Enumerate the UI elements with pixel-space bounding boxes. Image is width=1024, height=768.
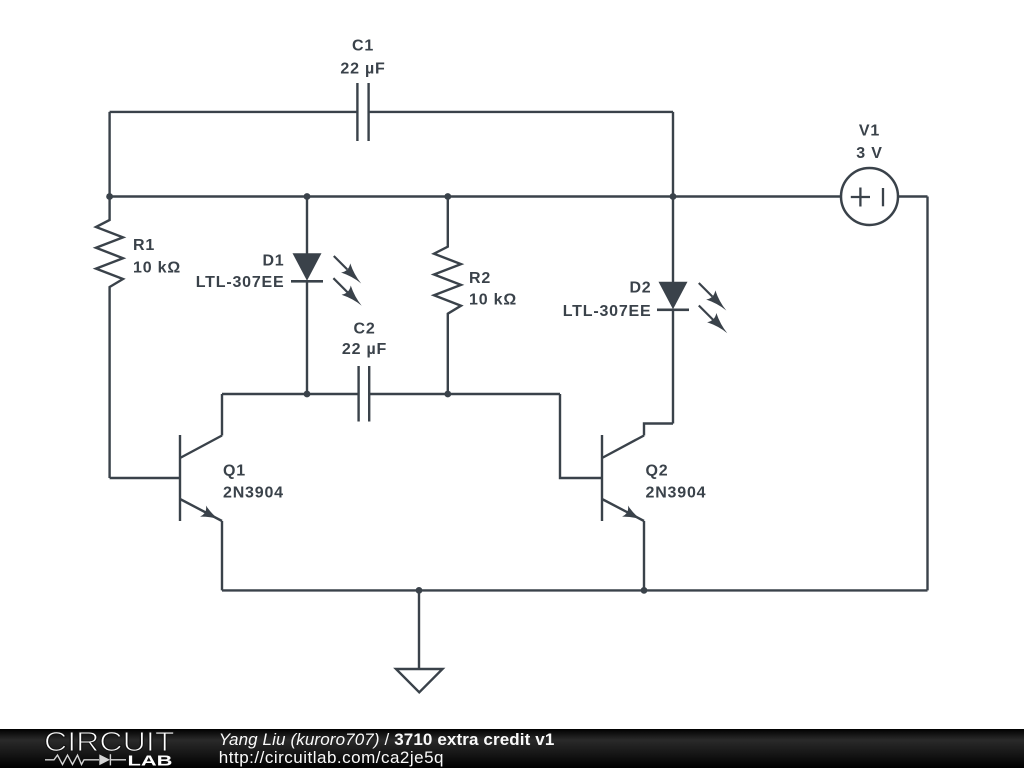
ground symbol stem <box>418 590 420 669</box>
transistor Q2 body <box>602 424 673 591</box>
svg-text:http://circuitlab.com/ca2je5q: http://circuitlab.com/ca2je5q <box>219 748 444 767</box>
junction node D (rail / D2) <box>670 193 677 200</box>
junction node A (rail / R1) <box>106 193 113 200</box>
svg-text:Q1: Q1 <box>223 463 246 480</box>
wire right drop from top rail to node D <box>672 112 674 197</box>
CircuitLab logo resistor-diode squiggle <box>45 754 126 765</box>
capacitor C2 <box>359 366 370 422</box>
LED D2 light arrow 1 <box>699 283 727 311</box>
svg-text:2N3904: 2N3904 <box>646 485 707 502</box>
svg-text:2N3904: 2N3904 <box>223 485 284 502</box>
transistor Q2 emitter arrow <box>622 506 640 520</box>
junction node G (ground rail / ground) <box>416 587 423 594</box>
wire D1 anode lead <box>306 197 308 255</box>
LED D1 triangle <box>293 253 322 281</box>
svg-text:V1: V1 <box>859 123 880 140</box>
LED D1 cathode bar <box>291 280 323 283</box>
footer bar <box>0 729 1024 768</box>
svg-text:R2: R2 <box>469 270 491 287</box>
svg-text:3 V: 3 V <box>856 145 882 162</box>
svg-text:Q2: Q2 <box>646 463 669 480</box>
wire rail 2 left segment (to C2 left plate) <box>222 393 359 395</box>
wire left drop from top rail to node A <box>108 112 110 197</box>
svg-text:R1: R1 <box>133 237 155 254</box>
LED D1 light arrow 2 <box>333 278 361 306</box>
svg-text:LTL-307EE: LTL-307EE <box>563 303 652 320</box>
svg-text:LTL-307EE: LTL-307EE <box>196 274 285 291</box>
wire D1 cathode to rail 2 <box>306 281 308 394</box>
svg-text:LAB: LAB <box>128 754 173 768</box>
svg-text:C2: C2 <box>353 321 375 338</box>
svg-text:10 kΩ: 10 kΩ <box>469 292 517 309</box>
svg-text:22 µF: 22 µF <box>342 341 387 358</box>
svg-text:22 µF: 22 µF <box>340 60 385 77</box>
resistor R2 <box>434 197 461 395</box>
voltage source V1 minus bar <box>882 188 884 206</box>
capacitor C1 <box>357 83 368 141</box>
ground symbol triangle <box>396 669 443 692</box>
junction node H (ground rail / Q2 emitter) <box>641 587 648 594</box>
svg-text:D2: D2 <box>629 280 651 297</box>
wire rail 2 right segment (from C2 right plate) <box>369 393 560 395</box>
wire rail 2 drop to Q2 base <box>560 394 602 478</box>
junction node F (rail2 / R2) <box>444 391 451 398</box>
wire right side drop (V1 to ground rail) <box>926 197 928 591</box>
wire top rail left segment (to C1 left plate) <box>110 111 358 113</box>
voltage source V1 circle <box>841 168 898 225</box>
resistor R1 <box>96 197 123 479</box>
CircuitLab logo diode triangle <box>99 754 110 765</box>
svg-text:D1: D1 <box>262 252 284 269</box>
LED D2 light arrow 2 <box>699 306 728 334</box>
wire Q1 base lead <box>110 477 180 479</box>
LED D2 cathode bar <box>657 309 689 312</box>
voltage source V1 plus sign <box>851 188 870 207</box>
svg-text:10 kΩ: 10 kΩ <box>133 260 181 277</box>
wire V1 positive lead to right drop <box>899 195 928 197</box>
junction node E (rail2 / D1) <box>304 391 311 398</box>
transistor Q1 emitter arrow <box>200 506 218 520</box>
svg-text:Yang Liu (kuroro707) / 3710 ex: Yang Liu (kuroro707) / 3710 extra credit… <box>219 730 555 749</box>
svg-text:CIRCUIT: CIRCUIT <box>44 726 175 757</box>
wire D2 cathode down to Q2 collector jog <box>672 310 674 424</box>
wire D2 anode lead <box>672 197 674 283</box>
junction node B (rail / D1) <box>304 193 311 200</box>
wire top rail right segment (from C1 right plate) <box>369 111 673 113</box>
transistor Q1 body <box>180 394 222 590</box>
junction node C (rail / R2) <box>444 193 451 200</box>
LED D2 triangle <box>659 282 688 310</box>
wire bottom ground rail <box>222 589 928 591</box>
svg-text:C1: C1 <box>352 38 374 55</box>
wire main rail (V+ net) <box>110 195 841 197</box>
LED D1 light arrow 1 <box>334 256 361 284</box>
